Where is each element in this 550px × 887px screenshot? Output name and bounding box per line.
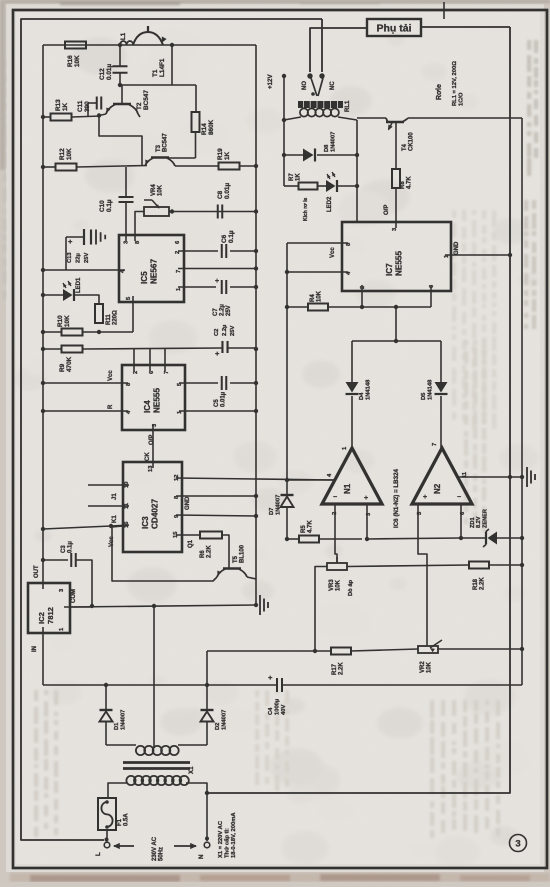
wire VR3 left drop [315, 567, 327, 651]
wire VR3 right to R18 [347, 565, 469, 567]
wire IC3 pin15 to R6 [176, 534, 200, 536]
wire IC5 pin5 drop [132, 296, 134, 332]
wire R8 to IC7 pin3 [395, 188, 397, 228]
resistor R16 [65, 42, 86, 49]
wire Phu tai to right bus [421, 26, 510, 28]
wire T3 to R19 [175, 165, 219, 167]
wire C5 to bus [230, 382, 256, 384]
transformer X1 secondary [106, 744, 136, 746]
wire N2 pin11 gnd [458, 476, 522, 478]
ground at C13 [95, 230, 97, 245]
node R12 rail [41, 165, 45, 169]
diode D4 [346, 393, 359, 395]
capacitor C11 [96, 97, 98, 110]
transistor T2 [113, 103, 131, 105]
wire IC4 pin8 [43, 382, 128, 384]
wire D4 lead [351, 341, 353, 382]
transformer X1 primary [126, 776, 135, 785]
wire T2 collector stub [138, 114, 140, 117]
wire coil to T4 [357, 117, 386, 119]
resistor R19 [219, 163, 240, 170]
capacitor C13 22u [65, 237, 67, 270]
capacitor C8 [217, 205, 219, 219]
wire relay right rail [356, 120, 358, 222]
transistor T4 [386, 121, 404, 123]
transformer X1 core [123, 761, 190, 764]
wire mains L: left side from top corner down to bottom-left [21, 19, 322, 840]
wire T5 collector to ground bus [247, 577, 256, 605]
wire T4 to right [408, 117, 522, 119]
wire y650 rail [207, 650, 331, 652]
node ground mid [254, 603, 258, 607]
terminal L [106, 830, 108, 841]
potentiometer VR2 [418, 646, 438, 653]
wire R14 top lead [195, 85, 197, 112]
wire R5 rail [287, 538, 299, 540]
wire IC3 pin16 Vcc [43, 525, 129, 529]
diode D2 [206, 685, 208, 709]
wire coil left [284, 117, 301, 120]
node VR4 out [170, 209, 174, 213]
potentiometer VR3 [327, 563, 347, 570]
wire mains: relay NC drop [321, 19, 323, 72]
resistor R4 [287, 306, 308, 308]
resistor R17 [331, 648, 351, 655]
wire R6 to T5 base [222, 535, 229, 568]
capacitor C10 [125, 167, 127, 196]
transistor T1 [133, 32, 163, 45]
wire relay left rail [283, 76, 285, 186]
node +12V relay [282, 74, 286, 78]
wire R14 to T3 base [195, 132, 197, 158]
wire T5 emitter loop [112, 526, 217, 581]
relay contact NC [319, 73, 324, 78]
resistor R6 [200, 532, 222, 539]
op-amp N1 [322, 448, 382, 504]
wire IC3 pin12 to N1 pin4 [176, 478, 335, 480]
wire IC4 pin5 out [179, 382, 218, 384]
wire VR2 right [438, 648, 522, 650]
wire right bus2 x522 [521, 118, 523, 685]
capacitor C6 [221, 244, 223, 258]
capacitor C2 [221, 341, 223, 353]
led LED1 [43, 294, 63, 296]
wire T2 emitter loop [99, 114, 142, 165]
wire IC2 COM [64, 606, 92, 608]
relay contact NO [307, 73, 312, 78]
wire T2 base riser [121, 85, 123, 104]
wire IC7 pin4 [287, 271, 348, 273]
wire IC3 pin11 [88, 505, 129, 507]
wire C6 to bus [230, 250, 256, 252]
wire IC4 pin7 riser [164, 349, 166, 371]
capacitor C3 [43, 559, 68, 561]
wire stub top right [443, 2, 445, 19]
node T1 left [118, 43, 122, 47]
node C3 gnd [90, 604, 94, 608]
capacitor C5 [221, 376, 223, 390]
node R10 rail [41, 330, 45, 334]
wire IC4 pin1 out [179, 410, 256, 412]
wire IC2 IN drop [42, 627, 44, 685]
node LED1 rail [41, 293, 45, 297]
wire IC5 pin7 out [178, 268, 256, 270]
load box Phu tai [367, 19, 421, 36]
node T1 right [170, 43, 174, 47]
relay arm [311, 78, 317, 96]
wire ground rail y605 [70, 605, 256, 607]
wire N1 pin3 drop [366, 504, 368, 539]
wire N2 pin6 drop [460, 504, 462, 538]
wire y85 [120, 84, 196, 86]
wire IC7 pin2 drop [361, 285, 363, 307]
op IC5 NE567 box [119, 235, 184, 302]
node center tap [152, 604, 156, 608]
wire N2 pin5 drop [418, 504, 427, 646]
node bus y349 [254, 347, 258, 351]
transistor T5 [223, 567, 241, 569]
wire IC7 pin1 GND [445, 254, 510, 256]
wire IC3 pin10 [88, 484, 129, 486]
wire IC5 pin4 [43, 269, 125, 271]
op-amp N2 [412, 448, 472, 504]
wire LED1 to R11 [75, 295, 100, 304]
wire C7 to bus [230, 286, 256, 288]
op IC7 NE555 box [342, 222, 451, 291]
resistor R11 [95, 304, 103, 323]
wire mains N: right bus down and across bottom [207, 27, 510, 793]
node R13 rail [41, 115, 45, 119]
op IC3 CD4027 box [123, 462, 182, 552]
wire T1 emitter drop [171, 45, 173, 85]
node D1 top [104, 683, 108, 687]
wire IC2 OUT riser [42, 560, 44, 589]
wire N1 pin2 drop [335, 504, 337, 562]
resistor R18 [469, 562, 489, 569]
relay coil RL1 [298, 101, 343, 108]
node R11 bottom [97, 330, 101, 334]
potentiometer VR4 [144, 207, 169, 216]
node R19 bus [254, 164, 258, 168]
wire relay NO riser to Phu tai [310, 28, 367, 72]
node R9 rail [41, 347, 45, 351]
wire D5 lead [440, 341, 442, 382]
wire main dc rail y685 [43, 684, 522, 686]
wire IC5 pin1 out [178, 286, 216, 288]
wire N1 pin4 [287, 479, 335, 481]
zener ZD1 [461, 537, 486, 539]
node C12 bottom [118, 83, 122, 87]
wire IC4 pin4 [43, 410, 128, 412]
wire IC4 pin3 OP [152, 424, 154, 468]
wire IC7 pin6 drop [430, 285, 432, 307]
wire IC7 pin8 [287, 242, 348, 244]
node pin2 junction [360, 305, 364, 309]
node N tap [205, 791, 209, 795]
wire pin3 to zener [367, 538, 461, 539]
resistor R9 [43, 348, 61, 350]
wire IC3 pin9 [176, 515, 256, 516]
regulator IC2 7812 box [28, 583, 70, 633]
wire R19 to bus [239, 165, 256, 167]
node C3 tap [41, 558, 45, 562]
resistor R12 [43, 166, 55, 168]
node D2 top [205, 683, 209, 687]
mains arrows [114, 845, 134, 847]
wire VR4 left lead to IC5 pin8 [135, 212, 144, 242]
wire IC5 pin2 out [178, 250, 218, 252]
wire center tap [153, 606, 155, 748]
transistor T3 [151, 156, 169, 158]
resistor R10 [43, 331, 61, 333]
ground center [259, 595, 261, 615]
resistor R13 [43, 116, 50, 118]
wire D4 D5 rail [352, 340, 441, 342]
node bus y210 [254, 209, 258, 213]
wire top rail y45 [43, 44, 256, 46]
diode D5 [435, 393, 448, 395]
led LED2 [317, 185, 326, 187]
wire left bus x43 [42, 45, 44, 560]
wire IC4 pin2 riser [133, 349, 135, 371]
wire divider drop [395, 307, 397, 341]
capacitor C12 [119, 45, 121, 66]
wire y211 to bus [169, 211, 256, 213]
wire coil right [338, 117, 357, 120]
diode D1 [105, 685, 107, 709]
resistor R8 [392, 169, 400, 188]
op IC4 NE555 box [122, 365, 185, 430]
fuse F1 [98, 798, 116, 830]
wire middle-left bus x287 [286, 243, 288, 494]
ground N2 [526, 467, 528, 487]
diode D8 relay [284, 154, 303, 156]
wire IC3 pin8 GND [176, 495, 256, 497]
resistor R5 [299, 536, 319, 543]
terminal N [206, 793, 208, 841]
resistor R14 [192, 112, 200, 132]
wire middle bus x256 [255, 45, 257, 579]
page number 3 [510, 835, 527, 852]
inductor L1 [120, 41, 133, 45]
resistor R7 [284, 185, 299, 187]
diode D7 [281, 494, 294, 496]
wire IC4 pin6 riser [149, 349, 151, 371]
